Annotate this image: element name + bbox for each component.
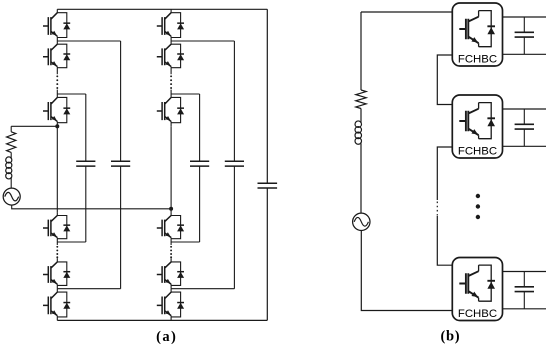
DC capacitor module 1 (515, 17, 534, 54)
node dot leg1 midpoint (55, 124, 59, 128)
wire: leg 2 midpoint vertical (170, 126, 172, 212)
wire: node S15/S16 to cap C12 bottom (57, 288, 120, 290)
wire: link to FCHBC3 (437, 216, 452, 265)
dotted wire continuation (436, 202, 438, 216)
ellipsis dots leg 2 lower (170, 246, 172, 248)
IGBT S13 with antiparallel diode (43, 94, 70, 126)
wire: DC stubs module 2 (503, 109, 547, 146)
IGBT symbol inside FCHBC 2 (459, 103, 495, 139)
IGBT S21 with antiparallel diode (157, 9, 184, 41)
IGBT S26 with antiparallel diode (157, 289, 184, 321)
IGBT S12 with antiparallel diode (43, 41, 70, 71)
FCHBC module box 3 (452, 258, 502, 321)
wire: node S21/S22 to cap C22 top (171, 40, 234, 42)
wire: DC stubs module 3 (503, 272, 547, 309)
ellipsis dots leg 2 upper (170, 75, 172, 77)
wire (360, 144, 362, 213)
wire: node S25/S26 to cap C22 bottom (171, 288, 234, 290)
IGBT symbol inside FCHBC 1 (459, 11, 495, 47)
AC source Vs (a) (3, 188, 20, 205)
wire (10, 152, 12, 157)
IGBT S24 with antiparallel diode (157, 212, 184, 242)
wire: bottom DC rail (a) (57, 319, 267, 321)
IGBT S22 with antiparallel diode (157, 41, 184, 71)
wire: source branch (b) upper (360, 12, 362, 90)
IGBT S11 with antiparallel diode (43, 9, 70, 41)
resistor Rs (a) (7, 132, 16, 153)
DC capacitor module 3 (515, 272, 534, 309)
wire: top DC rail (a) (57, 8, 267, 10)
ellipsis dots leg 1 lower (56, 246, 58, 248)
flying capacitor C21 (190, 94, 209, 242)
FCHBC module box 1 (452, 3, 502, 66)
wire: leg 2 ellipsis gap upper (170, 71, 172, 94)
FCHBC module box 2 (452, 95, 502, 158)
DC capacitor module 2 (515, 109, 534, 146)
IGBT S15 with antiparallel diode (43, 259, 70, 289)
wire: node S11/S12 to cap C12 top (57, 40, 120, 42)
wire: FCHBC1 to FCHBC2 series link (437, 55, 452, 105)
wire: FCHBC2 down link (437, 147, 452, 200)
svg-text:(a): (a) (156, 329, 177, 345)
wire: node above S23 to cap C21 top (171, 93, 200, 95)
IGBT S23 with antiparallel diode (157, 94, 184, 126)
IGBT S16 with antiparallel diode (43, 289, 70, 321)
inductor Ls (a) (6, 157, 12, 163)
wire: leg 2 ellipsis gap lower (170, 242, 172, 259)
wire: leg 1 midpoint vertical (56, 126, 58, 212)
IGBT symbol inside FCHBC 3 (459, 265, 495, 301)
wire: source branch upper (10, 126, 12, 132)
node dot leg2 midpoint (169, 207, 173, 211)
svg-text:(b): (b) (440, 329, 460, 345)
wire: node below S14 to cap C11 bottom (57, 241, 86, 243)
resistor Rs (b) (356, 90, 366, 109)
wire: AC top terminal to leg1 midpoint (11, 125, 57, 127)
svg-text:FCHBC: FCHBC (458, 308, 497, 320)
wire (10, 179, 12, 189)
ellipsis dots between modules (476, 194, 480, 198)
wire: top rail (b) (361, 11, 452, 13)
wire: node below S24 to cap C21 bottom (171, 241, 200, 243)
IGBT S14 with antiparallel diode (43, 212, 70, 242)
wire: bottom rail (b) (361, 231, 452, 311)
wire (360, 109, 362, 122)
svg-text:FCHBC: FCHBC (458, 53, 497, 65)
DC bus capacitor Cdc on right rail (258, 9, 278, 320)
wire: AC bottom terminal to leg2 midpoint (12, 205, 171, 209)
wire: leg 1 ellipsis gap lower (56, 242, 58, 259)
wire: leg 1 ellipsis gap upper (56, 71, 58, 94)
AC source Vs (b) (353, 213, 370, 230)
flying capacitor C11 (76, 94, 95, 242)
flying capacitor C12 (111, 41, 130, 289)
flying capacitor C22 (225, 41, 244, 289)
svg-text:FCHBC: FCHBC (458, 145, 497, 157)
IGBT S25 with antiparallel diode (157, 259, 184, 289)
ellipsis dots leg 1 upper (56, 75, 58, 77)
inductor Ls (b) (355, 121, 362, 128)
wire: DC stubs module 1 (503, 17, 547, 54)
wire: node above S13 to cap C11 top (57, 93, 86, 95)
